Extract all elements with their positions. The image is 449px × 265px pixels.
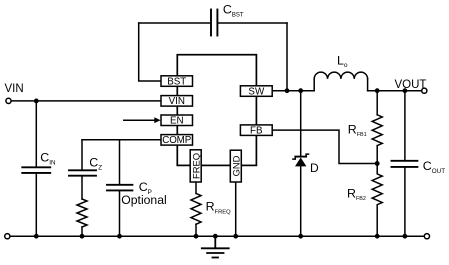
svg-text:BST: BST (167, 76, 186, 87)
node diode tap junction on SW line (298, 88, 303, 93)
node rail junction RFB2 (375, 234, 380, 239)
svg-text:COMP: COMP (162, 135, 191, 146)
pin box FREQ (190, 150, 201, 182)
capacitor C_P plates (107, 185, 132, 191)
node rail junction CIN (34, 234, 39, 239)
svg-text:EN: EN (170, 116, 184, 127)
pin box VIN (161, 96, 193, 107)
wire SW output line (272, 90, 314, 92)
capacitor C_BST plates (211, 10, 217, 36)
wire diode lower (300, 166, 302, 236)
svg-text:VIN: VIN (5, 83, 24, 95)
ground symbol (202, 236, 229, 257)
resistor R_FB2 (372, 164, 382, 237)
arrow into EN pin (124, 119, 155, 121)
svg-text:Lo: Lo (337, 53, 348, 68)
wire inductor to VOUT terminal (368, 90, 422, 92)
wire RZ to ground rail (81, 227, 83, 236)
svg-text:CBST: CBST (223, 3, 244, 19)
node rail junction diode (298, 234, 303, 239)
wire FREQ pin to RFREQ (195, 182, 197, 193)
node rail junction ground symbol (213, 234, 218, 239)
svg-text:RFB1: RFB1 (348, 122, 367, 138)
node CIN tap junction (34, 99, 39, 104)
node rail junction RFREQ (194, 234, 199, 239)
wire CP lower (119, 191, 121, 236)
pin box COMP (161, 135, 193, 146)
terminal VOUT open circle (422, 88, 427, 93)
capacitor C_Z plates (69, 170, 96, 175)
wire top rail from CBST right plate to SW-node riser (218, 22, 287, 24)
svg-text:Optional: Optional (121, 193, 166, 207)
svg-text:VOUT: VOUT (395, 79, 427, 91)
terminal ground-left open circle (5, 234, 10, 239)
wire GND pin to ground rail (235, 182, 237, 236)
svg-text:FB: FB (250, 126, 263, 137)
wire CZ upper (81, 140, 83, 170)
wire CIN lower (35, 173, 37, 236)
wire RFB1 upper (376, 91, 378, 115)
wire diode upper (300, 91, 302, 156)
terminal ground-right open circle (424, 234, 429, 239)
pin box GND (230, 150, 241, 182)
svg-text:COUT: COUT (423, 159, 445, 175)
svg-text:D: D (310, 161, 319, 175)
resistor R_FB1 (372, 115, 382, 146)
svg-text:VIN: VIN (169, 96, 185, 107)
svg-text:RFREQ: RFREQ (206, 199, 232, 215)
node COUT tap junction (403, 88, 408, 93)
wire BST riser (down-left of CBST) (139, 23, 161, 81)
pin box SW (240, 86, 272, 97)
node RFB1 tap junction (375, 88, 380, 93)
pin box FB (240, 125, 272, 135)
inductor L_O (314, 72, 367, 91)
pin box EN (161, 115, 193, 126)
svg-text:CZ: CZ (89, 155, 102, 171)
resistor R_FREQ (191, 193, 201, 224)
wire ground rail (10, 235, 424, 237)
svg-text:CIN: CIN (40, 150, 56, 166)
wire RFREQ to ground rail (195, 224, 197, 236)
wire CZ to RZ (81, 176, 83, 199)
svg-text:GND: GND (230, 155, 241, 176)
wire CBST to SW node riser (286, 23, 288, 91)
node CBST tap junction on SW line (285, 88, 290, 93)
wire COUT lower (404, 167, 406, 236)
svg-text:FREQ: FREQ (190, 153, 201, 179)
wire top rail from BST riser to CBST left plate (139, 22, 211, 24)
wire COMP rail (82, 139, 161, 141)
wire VIN input rail (11, 100, 161, 102)
capacitor C_IN plates (22, 167, 50, 173)
node FB divider junction (375, 161, 380, 166)
pin box BST (161, 76, 193, 87)
resistor RZ (compensation, unlabeled) (77, 199, 87, 227)
wire RFB1 to FB node (376, 146, 378, 164)
wire CP upper (119, 140, 121, 185)
op-amp U1 IC body (177, 55, 256, 166)
node rail junction COUT (403, 234, 408, 239)
diode D (schottky) (293, 154, 309, 166)
node rail junction RZ (80, 234, 85, 239)
wire COUT upper (404, 91, 406, 161)
svg-text:RFB2: RFB2 (347, 187, 366, 203)
terminal VIN open circle (6, 98, 11, 103)
node rail junction GND pin (233, 234, 238, 239)
wire CIN upper (35, 101, 37, 167)
wire FB pin to divider (272, 130, 377, 163)
capacitor C_OUT plates (392, 161, 418, 167)
node rail junction CP (117, 234, 122, 239)
svg-text:SW: SW (248, 86, 265, 97)
